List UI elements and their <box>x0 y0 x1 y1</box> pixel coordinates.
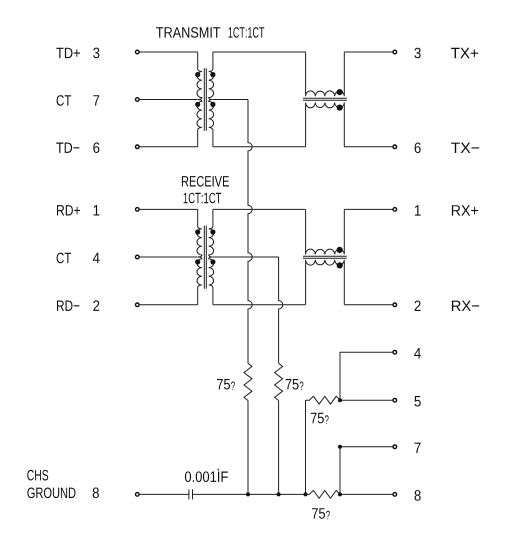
transformer T2 phase dot primary lower <box>195 259 200 264</box>
pin terminal RX- 2 <box>393 303 397 307</box>
pin number 5 (right) <box>414 396 420 407</box>
pin terminal 5 <box>393 398 397 402</box>
junction dot R3/pin5 <box>338 398 342 402</box>
pin terminal 7 <box>393 445 397 449</box>
pin number 6 (right) <box>415 143 421 154</box>
pin number 7 (right) <box>415 443 421 453</box>
wire pin 4 branch <box>340 352 393 400</box>
pin terminal TX+ 3 <box>393 50 397 54</box>
transformer T1 core <box>204 68 206 131</box>
label RD+ <box>57 205 80 215</box>
transformer T2 secondary winding <box>209 209 214 304</box>
junction dot R4/pin8 <box>338 492 342 496</box>
pin terminal CT (receive) <box>136 255 140 259</box>
pin number 6 (left) <box>93 142 99 153</box>
label RX− <box>452 301 479 311</box>
transformer T2 core <box>204 226 206 289</box>
title RECEIVE <box>182 176 229 187</box>
pin number 2 (right) <box>415 301 421 312</box>
wire R3 left to ground rail <box>305 400 307 494</box>
wire pin 8 branch <box>340 493 393 495</box>
wire T2 secondary top to choke L2 <box>213 208 306 210</box>
wire pin 5 branch <box>340 399 393 401</box>
junction dot R3-left/rail <box>304 492 308 496</box>
resistor R2 (75 ohm, vertical) <box>275 363 283 400</box>
value label ohm glyph (resistor R3) <box>325 415 329 424</box>
pin terminal RX+ 1 <box>393 208 397 212</box>
value label ohm glyph (resistor R2) <box>300 382 304 391</box>
transformer T1 phase dot primary lower <box>195 102 200 107</box>
junction dot pin7 corner <box>338 445 342 449</box>
label GROUND <box>27 488 75 499</box>
wire TD- to T1 primary bottom <box>140 146 198 148</box>
choke L2 phase dot top <box>337 247 343 253</box>
junction dot R2/rail <box>277 492 281 496</box>
title 1CT:1CT (receive) <box>184 193 222 204</box>
wire T1 secondary center tap <box>213 99 248 101</box>
title TRANSMIT <box>156 27 220 38</box>
pin terminal 4 <box>393 350 397 354</box>
pin number 8 (right) <box>415 490 421 501</box>
value label 75 ohm (resistor R3) <box>311 413 324 424</box>
value label 75 ohm (resistor R1) <box>217 379 230 390</box>
label CT <box>57 95 72 106</box>
pin number 3 (left) <box>93 48 99 59</box>
label RD− <box>57 301 79 311</box>
choke L2 phase dot bottom <box>337 262 343 268</box>
transformer T2 phase dot primary top <box>195 229 200 234</box>
value label 75 ohm (resistor R2) <box>286 379 299 390</box>
wire ground pin to capacitor <box>140 493 189 495</box>
value label 75 ohm (resistor R4) <box>312 508 325 519</box>
pin terminal 8 <box>393 493 397 497</box>
wire CT to T2 primary tap <box>140 256 198 258</box>
transformer T2 primary winding <box>197 209 202 304</box>
transformer T2 phase dot secondary top <box>210 229 215 234</box>
pin number 1 (right) <box>415 205 421 215</box>
resistor R4 (75 ohm, horizontal) <box>306 491 341 499</box>
transformer T2 phase dot secondary lower <box>210 259 215 264</box>
wire receive CT drop (vertical with hop) <box>279 257 283 363</box>
wire pin 7 branch <box>340 447 393 495</box>
label TX− <box>451 143 479 153</box>
value label ohm glyph (resistor R4) <box>326 511 330 520</box>
transformer T1 phase dot secondary top <box>210 72 215 77</box>
label TX+ <box>451 48 478 58</box>
pin number 2 (left) <box>93 300 99 311</box>
pin number 8 (left) <box>93 488 99 499</box>
wire RD+ to T2 primary top <box>140 208 198 210</box>
label CHS <box>27 470 48 481</box>
choke L1 phase dot bottom <box>337 105 343 111</box>
transformer T1 phase dot primary top <box>195 72 200 77</box>
choke L2 winding B <box>306 260 345 305</box>
pin number 1 (left) <box>94 205 100 215</box>
wire choke L2 top to pin 1 RX+ <box>344 208 392 210</box>
resistor R3 (75 ohm, horizontal) <box>306 396 341 404</box>
choke L2 core <box>303 256 347 258</box>
pin number 7 (left) <box>93 95 99 105</box>
choke L1 phase dot top <box>337 89 343 95</box>
title 1CT:1CT (transmit) <box>229 27 265 38</box>
pin terminal TD+ <box>136 50 140 54</box>
choke L1 core <box>303 98 347 100</box>
label CT <box>57 253 72 264</box>
value label 0.001uF (capacitor C1) <box>185 469 228 482</box>
wire T2 secondary center tap <box>213 256 279 258</box>
pin number 4 (right) <box>414 348 421 358</box>
wire TD+ to T1 primary top <box>140 51 198 53</box>
wire R2 bottom to ground rail <box>278 401 280 495</box>
wire T1 secondary bottom to choke L1 <box>213 146 306 148</box>
wire choke L1 top to pin 3 TX+ <box>344 51 392 53</box>
pin terminal TD- <box>136 145 140 149</box>
label RX+ <box>452 205 478 215</box>
pin number 3 (right) <box>414 48 420 59</box>
pin terminal RD+ <box>136 208 140 212</box>
resistor R1 (75 ohm, vertical) <box>244 363 252 400</box>
wire RD- to T2 primary bottom <box>140 304 198 306</box>
capacitor C1 0.001uF <box>189 489 193 499</box>
transformer T1 primary winding <box>197 52 202 147</box>
wire choke L2 bottom to pin 2 RX- <box>344 304 392 306</box>
junction dot R1/rail <box>246 492 250 496</box>
wire choke L1 bottom to pin 6 TX- <box>344 146 392 148</box>
pin terminal CHS GROUND 8 <box>136 493 140 497</box>
choke L1 winding A <box>306 52 345 96</box>
choke L1 winding B <box>306 103 345 147</box>
value label ohm glyph (resistor R1) <box>231 382 235 391</box>
transformer T1 phase dot secondary lower <box>210 102 215 107</box>
transformer T1 secondary winding <box>209 52 214 147</box>
wire transmit CT drop (vertical with hops) <box>248 100 252 364</box>
label TD− <box>56 143 79 153</box>
pin terminal RD- <box>136 303 140 307</box>
wire capacitor to ground rail <box>193 493 306 495</box>
wire T1 secondary top to choke L1 <box>213 51 306 53</box>
choke L2 winding A <box>306 209 345 254</box>
wire CT to T1 primary tap <box>140 99 198 101</box>
pin terminal CT (transmit) <box>136 98 140 102</box>
wire T2 secondary bottom to choke L2 <box>213 304 306 306</box>
label TD+ <box>56 48 80 58</box>
wire R1 bottom to ground rail <box>247 401 249 495</box>
pin terminal TX- 6 <box>393 145 397 149</box>
pin number 4 (left) <box>93 253 100 263</box>
